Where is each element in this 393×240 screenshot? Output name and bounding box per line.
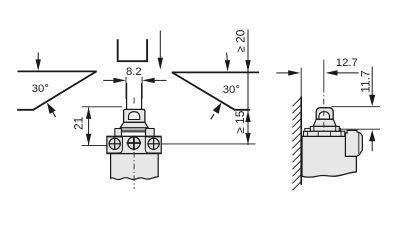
11.7 dimension line lower xyxy=(371,140,373,151)
8.2 dimension line right with arrow xyxy=(142,78,166,83)
cap right tab xyxy=(335,128,341,131)
screw centre line extending right to >=15 dimension xyxy=(161,143,255,145)
side view cap strip xyxy=(303,131,344,136)
left cam 30deg slope xyxy=(33,71,96,109)
right pad outline xyxy=(145,137,160,153)
side roller xyxy=(319,112,330,119)
connector block xyxy=(345,130,362,156)
flange end ticks xyxy=(313,126,315,131)
svg-text:30°: 30° xyxy=(223,84,240,96)
svg-text:30°: 30° xyxy=(32,83,49,95)
wall hatching xyxy=(292,98,301,191)
8.2 extension line left xyxy=(125,77,127,99)
front view centre line (dash-dot) xyxy=(133,98,135,104)
>=20 arrow down to cam top xyxy=(245,60,250,72)
right shoulder block xyxy=(146,129,155,137)
left cam bottom line xyxy=(17,109,34,111)
head row (mounting flange) xyxy=(107,136,161,153)
left cam approach arrow (down) xyxy=(36,53,41,71)
12.7 dimension line right with arrow xyxy=(326,70,359,75)
left shoulder block xyxy=(115,129,122,137)
12.7 extension line at wall xyxy=(300,68,302,97)
svg-text:11.7: 11.7 xyxy=(359,70,373,93)
svg-text:≥ 15: ≥ 15 xyxy=(233,110,247,133)
21 dimension vertical line xyxy=(88,108,90,146)
>=15 arrow up to cam bottom xyxy=(245,111,250,122)
roller (front) xyxy=(129,112,140,120)
U bracket (slot cam) xyxy=(118,39,147,61)
side view centre line (dash-dot, over shapes) xyxy=(323,60,325,88)
side plunger trapezoid xyxy=(313,119,336,126)
right cam bottom line xyxy=(234,109,250,111)
right cam 30deg slope xyxy=(172,72,235,109)
21 arrow up xyxy=(86,108,91,119)
side view main body xyxy=(302,136,356,177)
11.7 dimension line upper xyxy=(371,67,373,96)
cap strip xyxy=(121,128,145,132)
vertical approach arrow right of U bracket xyxy=(158,30,164,69)
wall line xyxy=(300,97,302,185)
cap strip inner line xyxy=(121,129,145,131)
11.7 arrow up xyxy=(369,130,375,141)
connector block inner line xyxy=(358,133,360,154)
cap strip tick lines xyxy=(307,131,309,136)
right cam approach arrow (down) xyxy=(225,53,230,72)
top reference line (roller top) xyxy=(331,106,380,108)
middle screw xyxy=(127,136,141,150)
plunger shaft right edge xyxy=(141,83,143,111)
21 dimension: bottom tick line xyxy=(82,145,108,147)
bottom reference line (head top) xyxy=(339,128,380,130)
left screw xyxy=(108,138,121,151)
right cam top line xyxy=(172,71,259,73)
21 arrow down xyxy=(86,134,91,145)
svg-text:8.2: 8.2 xyxy=(126,66,142,78)
svg-text:21: 21 xyxy=(71,116,85,130)
right cam slope normal arrow xyxy=(211,103,222,120)
lower body with torn bottom edge xyxy=(111,154,159,180)
11.7 arrow down xyxy=(369,95,375,106)
8.2 extension line right xyxy=(141,77,143,99)
side roller arch xyxy=(316,108,333,120)
cap left tab xyxy=(305,128,311,131)
svg-text:12.7: 12.7 xyxy=(336,57,358,69)
21 dimension: top tick line xyxy=(82,106,123,108)
left pad outline xyxy=(108,137,123,153)
plunger shaft left edge xyxy=(126,83,128,111)
left cam top line xyxy=(18,70,97,72)
svg-text:≥ 20: ≥ 20 xyxy=(233,29,247,52)
>=15 arrow down to screw line xyxy=(245,133,250,144)
right screw xyxy=(147,138,160,151)
8.2 dimension line left with arrow xyxy=(103,78,126,83)
side plunger flange xyxy=(310,126,339,131)
>=20 / >=15 common dimension line xyxy=(247,30,249,146)
roller fork housing xyxy=(124,109,145,122)
plunger skirt xyxy=(120,122,148,127)
12.7 dimension line left with arrow xyxy=(276,70,300,75)
left cam slope normal arrow xyxy=(47,103,56,117)
